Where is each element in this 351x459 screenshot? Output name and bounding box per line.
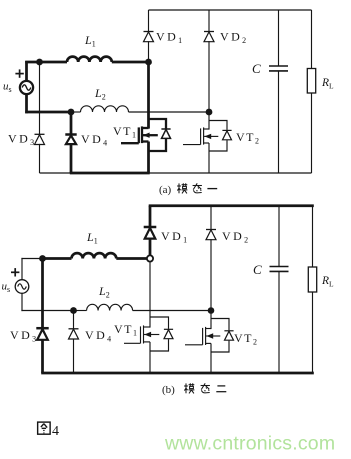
wire: VD2 to L2 node <box>208 41 210 112</box>
transistor VT2 <box>183 121 232 152</box>
wire: node B down to VD4 b <box>73 311 75 329</box>
wire: node A down to VD3 b <box>41 259 44 329</box>
wire: VT2 source to bottom rail b <box>210 343 212 373</box>
label VT2 b <box>234 331 257 347</box>
wire: source top to node A <box>25 61 39 64</box>
wire: VD2 riser <box>208 10 210 32</box>
wire: VT1 source to bottom rail b <box>149 342 151 373</box>
wire: VD1 riser b <box>149 206 152 227</box>
node: L2-VD2-VT2 junction b <box>208 307 215 314</box>
node A junction b <box>39 255 46 262</box>
wire: bottom rail left (thin) <box>40 172 72 174</box>
label VT1 <box>113 124 136 140</box>
wire: bottom rail right (thin) <box>149 172 312 174</box>
label C b <box>253 262 262 277</box>
wire: node A down to VD3 <box>39 62 41 134</box>
label VD4 <box>81 132 107 148</box>
node: L2-VD2-VT2 junction <box>206 109 213 116</box>
inductor L1 b <box>43 253 147 258</box>
wire: VD2 to L2 node b <box>210 239 212 310</box>
wire: VD1 to node <box>148 41 150 62</box>
resistor RL <box>307 69 315 94</box>
label RL b <box>321 275 334 289</box>
wire: capacitor to bottom rail <box>278 71 280 173</box>
diode VD1 b <box>144 227 157 239</box>
label C <box>252 61 261 76</box>
svg-text:C: C <box>252 61 261 76</box>
resistor RL b <box>308 267 316 292</box>
wire: L2 node down to VT2 drain <box>208 112 210 130</box>
svg-text:(b): (b) <box>162 384 175 396</box>
diode VD3 <box>35 134 45 144</box>
node B junction b <box>70 307 77 314</box>
wire: VT2 source to bottom rail <box>208 143 210 173</box>
wire: top rail <box>149 9 312 11</box>
label L1 b <box>86 230 98 246</box>
label RL <box>321 77 334 91</box>
wire: VD1 anode riser <box>148 10 150 32</box>
polarity plus sign b <box>11 268 19 276</box>
label VT1 b <box>114 322 137 338</box>
diode VD1 <box>144 32 154 42</box>
label VT2 <box>236 130 259 146</box>
label L2 b <box>98 284 110 300</box>
wire: top rail to capacitor b <box>278 206 280 267</box>
diode VD2 <box>204 32 214 42</box>
wire: node down to VT1 drain <box>147 62 150 129</box>
label VD1 b <box>161 229 187 245</box>
diode VD4 b <box>69 329 79 339</box>
transistor VT1 <box>121 119 171 151</box>
label VD2 <box>220 30 246 46</box>
transistor VT2 b <box>185 319 234 353</box>
diode VD3 b <box>36 328 48 340</box>
label VD4 b <box>85 328 111 344</box>
wire: source top to node A b <box>21 258 42 260</box>
label L1 <box>84 33 96 49</box>
caption (b) <box>162 383 226 396</box>
wire: RL to bottom rail <box>311 93 313 173</box>
wire: capacitor to bottom rail b <box>278 271 280 373</box>
label L2 <box>94 86 106 102</box>
wire: ring node down to VT1 b <box>149 262 151 328</box>
transistor VT1 b <box>124 317 173 351</box>
svg-text:C: C <box>253 262 262 277</box>
inductor L2 <box>71 106 209 112</box>
diode VD2 b <box>206 230 216 240</box>
watermark <box>164 433 335 455</box>
svg-text:(a): (a) <box>159 184 172 196</box>
wire: bottom rail mid (bold) <box>70 172 150 175</box>
svg-text:4: 4 <box>52 424 59 439</box>
ac source us b <box>15 258 29 311</box>
capacitor C b <box>270 267 289 272</box>
wire: node B down to VD4 <box>70 112 73 135</box>
wire: VD3 to bottom rail <box>39 144 41 173</box>
wire: bottom rail b (bold) <box>41 372 314 375</box>
ac source us <box>20 61 33 113</box>
svg-text:www.cntronics.com: www.cntronics.com <box>164 433 335 455</box>
node A junction <box>36 59 43 66</box>
inductor L2 b <box>74 304 212 310</box>
wire: source bottom to node B <box>25 111 71 114</box>
wire: RL to bottom rail b <box>312 292 314 373</box>
polarity plus sign <box>15 69 23 77</box>
label VD3 b <box>10 328 36 344</box>
wire: VD1 to ring node b <box>149 238 152 255</box>
wire: VD2 riser b <box>210 206 212 230</box>
diode VD4 <box>65 135 76 145</box>
wire: top rail b (bold) <box>149 204 314 207</box>
label us b <box>2 281 11 295</box>
node: hollow junction b <box>147 255 153 261</box>
wire: VD4 to bottom rail b <box>73 339 75 373</box>
wire: VD4 to bottom rail <box>70 144 73 173</box>
wire: L2 node down to VT2 b <box>210 311 212 330</box>
wire: source bottom to node B b <box>21 310 73 312</box>
node B junction <box>68 109 75 116</box>
node: L1-VD1-VT1 junction <box>145 59 152 66</box>
caption (a) <box>159 183 217 196</box>
wire: top rail to RL b <box>312 206 314 267</box>
label VD1 <box>156 30 182 46</box>
wire: VT1 source to bottom rail <box>147 142 150 174</box>
wire: top rail to capacitor <box>278 10 280 66</box>
capacitor C <box>269 66 288 71</box>
label VD2 b <box>222 229 248 245</box>
figure caption 图 4 <box>38 422 59 439</box>
label us <box>3 81 12 95</box>
label VD3 <box>8 132 34 148</box>
wire: VD3 to bottom rail b <box>41 340 44 373</box>
inductor L1 <box>40 57 149 62</box>
wire: top rail to RL <box>311 10 313 69</box>
